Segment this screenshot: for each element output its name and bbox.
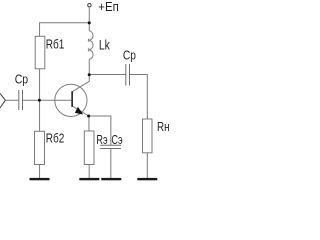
wire: base node to Rb2 xyxy=(39,100,41,131)
wire: Rb1 bottom to base node xyxy=(39,69,41,100)
svg-text:Rб2: Rб2 xyxy=(46,131,65,146)
node: emitter junction xyxy=(87,115,90,118)
ground Rb2 xyxy=(30,178,50,180)
transistor base bar xyxy=(71,91,73,107)
wire: Lk bottom to collector node xyxy=(88,59,90,74)
svg-text:Rб1: Rб1 xyxy=(46,36,65,51)
ground Ce xyxy=(101,178,121,180)
wire: input chevron to base bar xyxy=(5,99,18,101)
wire: output cap to Rn top xyxy=(130,75,148,120)
node: supply junction xyxy=(88,21,91,24)
terminal +Ep xyxy=(88,3,91,6)
svg-text:Rн: Rн xyxy=(157,120,170,134)
input terminal chevron xyxy=(0,93,5,108)
transistor VT1 circle xyxy=(55,84,87,116)
svg-text:Ср: Ср xyxy=(123,47,136,62)
wire: collector node to output cap xyxy=(89,74,126,76)
wire: terminal to supply node xyxy=(88,7,90,31)
resistor Rb1 xyxy=(35,36,45,69)
svg-text:Lk: Lk xyxy=(99,37,111,53)
wire: emitter node to Ce xyxy=(89,116,111,145)
capacitor Cp input plates xyxy=(18,90,20,110)
wire: Ce bottom to ground xyxy=(110,149,112,179)
wire: Re bottom to ground xyxy=(88,165,90,179)
inductor Lk xyxy=(89,31,93,60)
resistor Re xyxy=(84,131,94,165)
svg-text:+Еп: +Еп xyxy=(98,0,119,14)
wire: emitter node to Re xyxy=(88,116,90,131)
svg-text:Сэ: Сэ xyxy=(111,132,122,147)
wire: Rb2 bottom to ground xyxy=(39,165,41,179)
transistor emitter lead xyxy=(72,106,88,116)
capacitor Ce plates xyxy=(100,144,121,146)
wire: Rn bottom to ground xyxy=(146,153,148,179)
inductor Lk join curls xyxy=(87,39,90,51)
svg-text:Ср: Ср xyxy=(15,71,28,86)
transistor collector lead xyxy=(72,75,89,92)
resistor Rn xyxy=(143,119,153,153)
svg-text:Rэ: Rэ xyxy=(96,132,107,147)
transistor emitter arrow xyxy=(75,107,83,115)
ground Rn xyxy=(137,178,157,180)
ground Re xyxy=(79,178,99,180)
node: collector junction xyxy=(88,73,91,76)
resistor Rb2 xyxy=(35,131,45,164)
capacitor Cp output plates xyxy=(125,64,127,86)
node: base junction xyxy=(38,99,41,102)
wire: supply node to Rb1 top corner xyxy=(40,23,90,37)
